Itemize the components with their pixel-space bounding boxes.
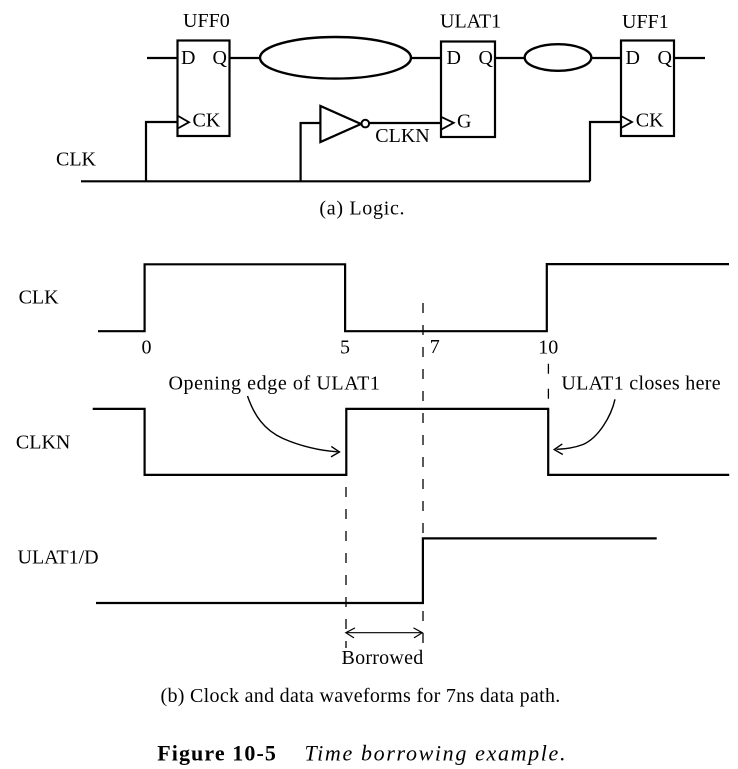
svg-text:Opening edge of ULAT1: Opening edge of ULAT1 xyxy=(169,373,381,395)
svg-text:CK: CK xyxy=(193,109,221,131)
svg-text:Q: Q xyxy=(658,47,673,69)
svg-text:CLKN: CLKN xyxy=(16,432,70,454)
svg-text:7: 7 xyxy=(430,336,440,358)
svg-text:G: G xyxy=(457,111,471,133)
svg-text:CLKN: CLKN xyxy=(375,125,429,147)
svg-text:D: D xyxy=(181,47,195,69)
svg-text:(b) Clock and data waveforms f: (b) Clock and data waveforms for 7ns dat… xyxy=(161,685,561,707)
svg-text:ULAT1: ULAT1 xyxy=(440,11,501,33)
svg-text:D: D xyxy=(626,47,640,69)
svg-text:CLK: CLK xyxy=(19,286,60,308)
svg-text:CK: CK xyxy=(636,109,664,131)
svg-text:D: D xyxy=(447,47,461,69)
svg-text:Borrowed: Borrowed xyxy=(342,647,424,669)
svg-text:(a) Logic.: (a) Logic. xyxy=(319,198,405,220)
svg-text:CLK: CLK xyxy=(56,149,97,171)
svg-text:UFF0: UFF0 xyxy=(183,10,230,32)
svg-text:Q: Q xyxy=(479,47,494,69)
svg-text:Time borrowing example.: Time borrowing example. xyxy=(305,741,568,766)
svg-text:UFF1: UFF1 xyxy=(622,11,669,33)
svg-text:ULAT1/D: ULAT1/D xyxy=(18,547,99,569)
svg-text:Figure 10-5: Figure 10-5 xyxy=(157,741,277,766)
svg-text:Q: Q xyxy=(213,47,228,69)
svg-text:ULAT1 closes here: ULAT1 closes here xyxy=(561,373,721,395)
svg-text:0: 0 xyxy=(142,337,152,359)
svg-text:5: 5 xyxy=(340,337,350,359)
svg-text:10: 10 xyxy=(538,337,558,359)
